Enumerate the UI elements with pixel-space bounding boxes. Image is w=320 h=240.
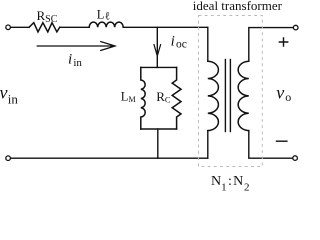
terminal top-right (293, 25, 298, 30)
resistor R_C branch (172, 67, 181, 129)
primary bottom lead (207, 131, 209, 159)
svg-text:ioc: ioc (171, 34, 187, 51)
terminal bottom-left (6, 156, 11, 161)
parallel box bottom wire (141, 128, 177, 130)
inductor L_l (89, 22, 123, 27)
dashed box ideal transformer (199, 16, 263, 167)
parallel box top wire (141, 66, 177, 68)
wire R_SC to L_l (60, 26, 89, 28)
svg-text:RSC: RSC (37, 8, 58, 25)
wire junction down (i_oc branch) (156, 27, 158, 67)
svg-text:iin: iin (68, 52, 82, 69)
terminal top-left (6, 25, 11, 30)
terminal bottom-right (293, 156, 298, 161)
svg-text:vo: vo (276, 83, 291, 105)
svg-text:Lℓ: Lℓ (97, 8, 110, 23)
wire box bottom stub (157, 129, 159, 158)
secondary top lead (249, 28, 293, 62)
primary top lead (207, 27, 209, 61)
svg-text:N1:N2: N1:N2 (211, 174, 249, 194)
core line left (224, 60, 226, 132)
svg-text:LM: LM (121, 89, 136, 104)
arrow i_in (37, 42, 115, 51)
arrowhead i_oc (154, 45, 161, 56)
primary winding (208, 61, 219, 130)
svg-text:RC: RC (156, 89, 171, 104)
resistor R_SC (29, 23, 60, 32)
minus sign (277, 140, 287, 142)
secondary winding (238, 61, 249, 130)
svg-text:vin: vin (0, 83, 18, 107)
wire L_l to primary (123, 26, 208, 28)
plus sign (279, 38, 287, 46)
secondary bottom lead (249, 131, 293, 159)
inductor L_M branch (141, 67, 145, 129)
wire top-left (11, 26, 29, 28)
bottom wire (11, 157, 208, 159)
svg-text:ideal transformer: ideal transformer (193, 0, 283, 13)
core line right (229, 60, 231, 132)
